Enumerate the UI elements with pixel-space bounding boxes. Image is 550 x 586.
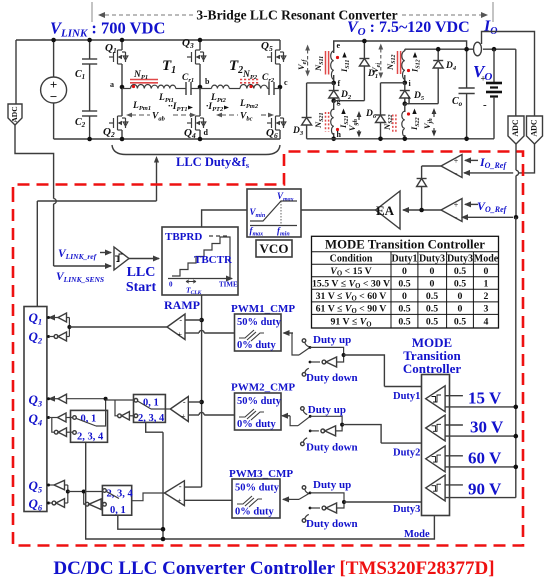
diode min-select (417, 166, 441, 210)
duty switch row2 (282, 404, 381, 454)
svg-text:LLC: LLC (127, 265, 156, 280)
svg-text:ADC: ADC (511, 119, 520, 137)
hysteresis comparator 90V (426, 475, 516, 501)
svg-text:Start: Start (126, 280, 157, 295)
red dashed controller border (13, 152, 523, 546)
block PWM3_CMP (229, 468, 293, 518)
wire EA to VCO (301, 209, 376, 211)
V_ab dashed arrow (131, 114, 150, 116)
wire IO to ADC2 (482, 32, 535, 117)
wire ADC2 down then left to IO comparator (519, 144, 535, 173)
inductor L_Pt1 (122, 88, 131, 90)
wire ADC1 down (515, 144, 517, 170)
wire g to D1 leg (334, 100, 365, 102)
svg-text:90 V: 90 V (468, 480, 502, 499)
inductor L_Pm1 (131, 85, 158, 89)
inverter row3 (82, 490, 103, 510)
svg-text:Duty up: Duty up (308, 404, 346, 416)
wire ramp distribution vertical (201, 295, 203, 320)
diode D3 (292, 83, 312, 139)
wire Q1/Q2 join to comparator1 (68, 318, 70, 337)
winding N_S11 (313, 41, 351, 83)
ADC 2 (IO) (527, 116, 543, 144)
svg-text:PWM2_CMP: PWM2_CMP (231, 382, 295, 394)
svg-text:30 V: 30 V (470, 418, 504, 437)
svg-text:0: 0 (430, 278, 435, 289)
duty switch row1 (284, 333, 385, 387)
svg-text:b: b (205, 77, 210, 86)
node i (403, 81, 408, 86)
block PWM2_CMP (231, 382, 295, 431)
winding N_S21 (313, 101, 350, 139)
hysteresis comparator 30V (426, 415, 516, 441)
battery VO (473, 49, 502, 139)
svg-text:15 V: 15 V (468, 389, 502, 408)
svg-text:-: - (455, 212, 458, 222)
svg-text:-: - (183, 398, 186, 407)
switch box3 (row3 select) (102, 486, 133, 517)
svg-text:VO : 7.5~120 VDC: VO : 7.5~120 VDC (347, 19, 470, 38)
svg-text:d: d (204, 128, 209, 137)
svg-text:Duty3: Duty3 (419, 254, 445, 265)
svg-text:LLC Duty&fs: LLC Duty&fs (176, 155, 250, 170)
brace LLC Duty&fs (112, 145, 280, 155)
V_bc dashed arrow (221, 114, 238, 116)
buffer Q1 (47, 313, 69, 322)
wire j to D4 leg (405, 103, 438, 105)
wire f to left leg (307, 82, 334, 84)
ADC input (8, 104, 22, 125)
wire adc to controller (15, 125, 54, 199)
transistor Q1 (105, 40, 128, 87)
svg-text:3: 3 (484, 303, 489, 314)
hysteresis comparator 60V (426, 446, 516, 472)
bus junction dots (51, 38, 56, 43)
svg-text:61 V ≤ VO < 90 V: 61 V ≤ VO < 90 V (316, 303, 387, 315)
svg-text:Mode: Mode (474, 254, 499, 265)
transistor Q2 (103, 87, 128, 139)
node a (120, 85, 125, 90)
node g (331, 98, 336, 103)
wire secondary bottom rail (307, 138, 494, 140)
wire i to left (381, 82, 405, 84)
svg-text:Condition: Condition (330, 254, 373, 265)
svg-text:Duty3: Duty3 (447, 254, 473, 265)
svg-text:0, 1: 0, 1 (110, 505, 126, 516)
VCO block (247, 189, 301, 257)
gate drive arrow up (156, 160, 158, 201)
svg-text:+: + (181, 412, 186, 421)
svg-text:Duty1: Duty1 (391, 254, 417, 265)
svg-text:+: + (454, 157, 459, 166)
comparator 2 to Q3 line (106, 399, 135, 401)
inductor L_Pm2 (229, 88, 240, 90)
svg-text:0, 1: 0, 1 (143, 398, 159, 409)
svg-text:0.5: 0.5 (398, 317, 410, 328)
svg-text:0% duty: 0% duty (237, 340, 277, 351)
svg-text:Duty3: Duty3 (393, 504, 420, 515)
svg-text:0: 0 (458, 291, 463, 302)
diode D5 (400, 83, 425, 104)
buffer Q3 (47, 394, 106, 403)
voltage source V1 (41, 40, 67, 139)
svg-text:31 V ≤ VO < 60 V: 31 V ≤ VO < 60 V (316, 291, 387, 303)
svg-text:2, 3, 4: 2, 3, 4 (138, 413, 165, 424)
svg-text:Duty up: Duty up (313, 479, 351, 491)
node h (331, 137, 336, 142)
inverter Q6 (47, 499, 68, 508)
inverter Q4b (52, 418, 73, 437)
svg-text:Duty down: Duty down (306, 442, 358, 454)
svg-text:0.5: 0.5 (454, 317, 466, 328)
gate box Q1-Q6 (24, 307, 47, 512)
T2: inductor L_Pt2 (200, 88, 212, 90)
wire lower output rail (405, 48, 438, 50)
svg-text:Duty down: Duty down (306, 518, 358, 530)
svg-text:TBPRD: TBPRD (165, 231, 202, 243)
svg-text:Duty2: Duty2 (393, 448, 420, 459)
svg-text:50% duty: 50% duty (237, 396, 282, 407)
svg-text:DC/DC LLC Converter Controller: DC/DC LLC Converter Controller [TMS320F2… (53, 558, 494, 579)
capacitor Co (452, 47, 475, 141)
wire Q5/Q6 join (67, 485, 69, 503)
T2 core (dotted red) (240, 79, 260, 81)
wire LLC Start to RAMP (129, 258, 159, 260)
op-amp EA (376, 191, 401, 229)
svg-text:Mode: Mode (404, 529, 430, 540)
MODE transition controller box (381, 217, 518, 515)
svg-text:e: e (337, 41, 341, 50)
transistor Q4 (184, 87, 209, 140)
left tick (91, 2, 93, 22)
wire VCO to RAMP (202, 210, 247, 227)
svg-text:0% duty: 0% duty (235, 507, 275, 518)
svg-text:VO < 15 V: VO < 15 V (330, 266, 371, 278)
node b (198, 85, 203, 90)
svg-text:TBCTR: TBCTR (194, 254, 233, 266)
svg-text:TIME: TIME (219, 281, 238, 289)
wire gate feed from top (37, 200, 156, 202)
hysteresis comparator 15V (426, 386, 516, 412)
svg-text:0.5: 0.5 (454, 278, 466, 289)
svg-text:0: 0 (402, 291, 407, 302)
svg-text:c: c (284, 78, 288, 87)
diode D2 (329, 83, 352, 101)
V_gh arrow (347, 111, 361, 138)
wire bottom bus (54, 138, 280, 140)
transistor Q6 (266, 87, 286, 140)
svg-text:h: h (337, 130, 342, 139)
comparator I_O_Ref (441, 155, 507, 179)
inverter Q2 (47, 332, 69, 341)
svg-text:-: - (179, 316, 182, 325)
svg-text:ADC: ADC (10, 106, 19, 122)
comparator LLC Start (54, 247, 157, 295)
svg-text:VCO: VCO (260, 241, 289, 256)
node j (403, 101, 408, 106)
switch box2 (row2 select) (134, 395, 166, 425)
inverter row2-mid (115, 400, 134, 420)
capacitor Cr2 (268, 88, 270, 90)
svg-text:Duty down: Duty down (306, 372, 358, 384)
svg-text:0: 0 (484, 266, 489, 277)
block PWM1_CMP (231, 303, 295, 351)
T1 core (solid red) (130, 79, 158, 81)
comparator 1 (167, 314, 235, 340)
svg-text:f: f (338, 79, 341, 88)
wire left adc drop (15, 40, 17, 104)
svg-text:0.5: 0.5 (454, 266, 466, 277)
svg-text:Duty1: Duty1 (393, 391, 420, 402)
svg-text:0: 0 (458, 303, 463, 314)
svg-text:0.5: 0.5 (426, 303, 438, 314)
comparator V_O_Ref (441, 199, 518, 223)
Mode feedback wire (86, 422, 435, 541)
svg-text:-: - (179, 482, 182, 491)
wire hop at (53.6,201) (54, 199, 57, 204)
Duty2 wire (381, 442, 421, 444)
right arrow (402, 14, 487, 16)
winding N_S12 (385, 49, 422, 83)
buffer Q5 (47, 480, 68, 490)
wire top bus (16, 39, 280, 41)
diode D1 (359, 39, 378, 101)
svg-text:60 V: 60 V (468, 449, 502, 468)
wire secondary top bus (334, 41, 467, 53)
right tick (492, 2, 494, 22)
duty switch row3 (283, 479, 422, 530)
svg-text:+: + (177, 330, 182, 339)
comparator 2 (165, 397, 234, 422)
VO sense vertical (515, 217, 517, 497)
svg-text:0: 0 (402, 266, 407, 277)
buffer Q4 (47, 413, 73, 422)
svg-text:+: + (454, 201, 459, 210)
svg-text:+: + (177, 497, 182, 506)
svg-text:0.5: 0.5 (426, 291, 438, 302)
wire VO tap to ADC1 (515, 49, 517, 116)
svg-text:4: 4 (484, 317, 489, 328)
left dashed arrow (99, 14, 193, 16)
V_ef dashed arrow (296, 45, 310, 77)
svg-text:2: 2 (484, 291, 489, 302)
transistor Q5 (261, 40, 286, 87)
svg-text:15.5 V ≤ VO < 30 V: 15.5 V ≤ VO < 30 V (312, 278, 390, 290)
capacitor C2 (75, 87, 97, 139)
svg-text:0% duty: 0% duty (237, 419, 277, 430)
svg-text:RAMP: RAMP (164, 298, 200, 312)
node c (278, 85, 283, 90)
svg-text:1: 1 (484, 278, 489, 289)
EA input wire (403, 209, 441, 211)
transistor Q3 (182, 37, 206, 87)
svg-text:91 V ≤ VO: 91 V ≤ VO (330, 317, 371, 329)
svg-text:-: - (455, 168, 458, 178)
capacitor C1 (75, 40, 97, 87)
comparator 3 wire from switch (132, 493, 165, 501)
ADC 1 (VO) (508, 116, 524, 144)
diode D4 (433, 47, 457, 104)
svg-text:0.5: 0.5 (398, 303, 410, 314)
capacitor Cr1 (176, 88, 186, 90)
svg-text:-: - (483, 99, 487, 111)
node f (331, 81, 336, 86)
RAMP block (162, 227, 238, 312)
current sensor I_O (474, 42, 482, 56)
svg-text:50% duty: 50% duty (237, 317, 282, 328)
svg-text:0.5: 0.5 (398, 278, 410, 289)
svg-text:MODE Transition Controller: MODE Transition Controller (325, 238, 485, 252)
winding N_S22 (382, 104, 421, 139)
svg-text:ADC: ADC (530, 119, 539, 137)
svg-text:0: 0 (169, 281, 173, 289)
V_jh arrow (422, 108, 436, 137)
svg-text:0: 0 (430, 266, 435, 277)
svg-text:0.5: 0.5 (426, 317, 438, 328)
svg-text:a: a (110, 80, 114, 89)
svg-text:EA: EA (376, 203, 395, 218)
svg-text:50% duty: 50% duty (235, 483, 280, 494)
comparator 3 (165, 481, 233, 506)
switch box1 (Q4 select) (71, 397, 108, 443)
Duty1 wire (384, 386, 421, 388)
V_ei dashed arrow (370, 44, 383, 79)
svg-text:−: − (50, 89, 57, 104)
diode D6 (365, 83, 386, 139)
svg-text:Duty up: Duty up (313, 334, 351, 346)
svg-text:2, 3, 4: 2, 3, 4 (77, 432, 104, 443)
